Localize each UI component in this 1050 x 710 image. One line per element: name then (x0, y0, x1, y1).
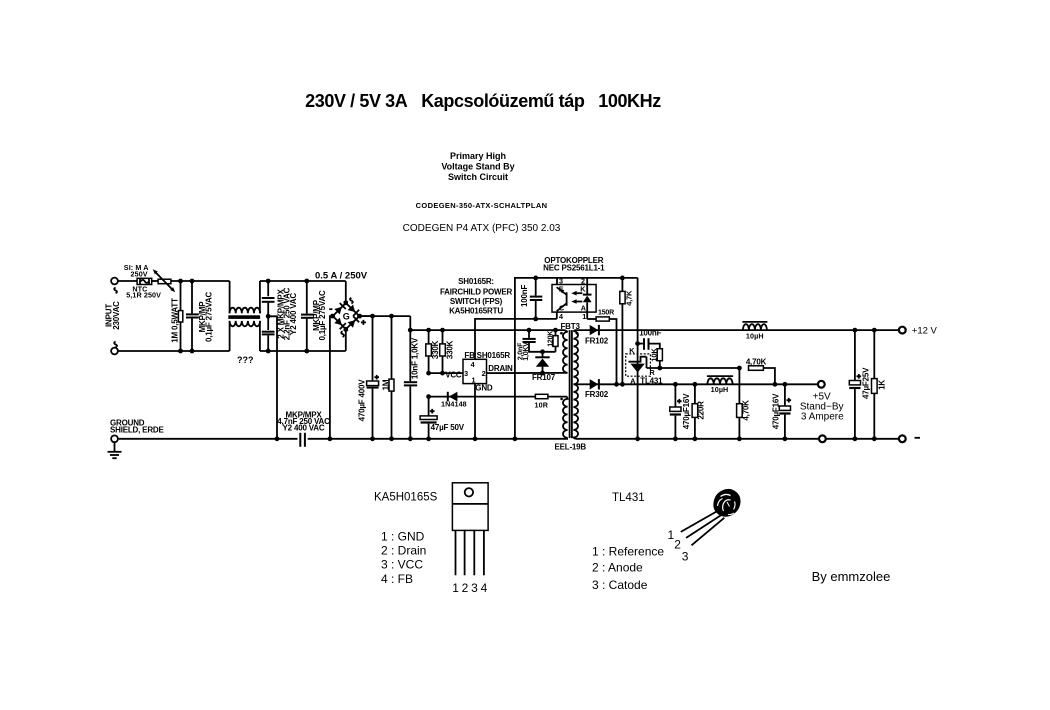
label MKP/MP 0,1uF 275VAC (198, 292, 213, 343)
TO-92 3D drawing (713, 489, 740, 517)
wire opto pin1 to 150R (587, 318, 596, 320)
svg-text:1: 1 (582, 312, 586, 321)
capacitor 470uF 16V #1 (670, 384, 682, 439)
svg-text:1N4148: 1N4148 (441, 399, 467, 408)
junction (178, 279, 183, 284)
junction (178, 349, 183, 354)
svg-text:47µF 50V: 47µF 50V (431, 423, 465, 432)
resistor 4,70K horizontal (749, 366, 775, 385)
svg-text:Y2 400 VAC: Y2 400 VAC (289, 293, 298, 335)
svg-text:A: A (581, 304, 586, 313)
svg-text:A: A (630, 376, 635, 385)
svg-text:100nF: 100nF (639, 328, 661, 337)
wire Y mid to ground drop (268, 316, 277, 439)
svg-text:1: 1 (452, 581, 459, 595)
core (570, 330, 572, 438)
wire bottom AC left (118, 350, 230, 352)
capacitor MKP/MP 0,1uF 275VAC #2 (301, 281, 314, 351)
secondary tap wire (575, 383, 590, 385)
svg-text:1 : GND: 1 : GND (381, 530, 425, 544)
svg-text:VCC: VCC (445, 371, 462, 380)
junction (370, 436, 375, 441)
IC U1 FB SH0165R (463, 359, 487, 383)
TO-220 package (452, 483, 488, 576)
svg-text:KA5H0165S: KA5H0165S (374, 492, 438, 504)
resistor 4,70K vertical (737, 368, 743, 439)
svg-text:100nF: 100nF (520, 285, 529, 307)
label INPUT 230VAC (105, 301, 122, 330)
terminal input N (111, 348, 118, 355)
junction (773, 382, 778, 387)
svg-text:0,1µF 275VAC: 0,1µF 275VAC (318, 290, 327, 341)
junction (737, 366, 742, 371)
svg-text:470µF16V: 470µF16V (771, 393, 780, 429)
svg-text:FR107: FR107 (532, 373, 556, 382)
svg-text:2: 2 (674, 538, 681, 552)
inductor 10uH +5V (707, 376, 733, 384)
resistor 1M bleeder (389, 316, 394, 439)
opto LED (583, 285, 592, 313)
junction (440, 371, 445, 376)
svg-text:10µH: 10µH (746, 332, 764, 341)
capacitor 470uF 400V bulk (367, 316, 379, 439)
resistor 10K (657, 349, 662, 368)
svg-text:DRAIN: DRAIN (488, 364, 513, 373)
svg-text:1M 0,5WATT: 1M 0,5WATT (171, 298, 180, 343)
junction (275, 436, 280, 441)
svg-text:4,70K: 4,70K (746, 357, 767, 366)
wire top AC left (118, 280, 137, 282)
svg-text:Voltage Stand By: Voltage Stand By (441, 162, 514, 172)
AC tilde bottom (114, 342, 117, 348)
optocoupler U2 box (552, 285, 596, 313)
svg-text:10R: 10R (535, 400, 549, 409)
junction (426, 394, 431, 399)
capacitor 47uF 50V (420, 397, 437, 439)
svg-text:By emmzolee: By emmzolee (812, 569, 891, 584)
primary ground bus (308, 438, 568, 440)
wire bottom AC right (260, 350, 346, 352)
svg-text:0,1µF 275VAC: 0,1µF 275VAC (204, 292, 213, 343)
capacitor 100nF opto (530, 278, 543, 319)
svg-text:120K: 120K (547, 331, 554, 347)
svg-text:10nF 1,0KV: 10nF 1,0KV (410, 337, 419, 379)
resistor 330K #1 (426, 330, 432, 373)
label MKP/MPX 4,7nF 250VAC Y2 400VAC (277, 410, 330, 432)
wire GND pin1 down (474, 384, 476, 439)
capacitor MKP/MPX 4,7nF Y2 (in ground line) (300, 433, 305, 447)
label SH0165R: FAIRCHILD POWER SWITCH (FPS) KA5H0165RTU (440, 277, 513, 316)
svg-text:G: G (343, 312, 350, 322)
label minus out (915, 437, 921, 439)
terminal input L (111, 278, 118, 285)
junction (266, 349, 271, 354)
svg-text:1K: 1K (878, 380, 887, 390)
junction (673, 436, 678, 441)
junction (304, 279, 309, 284)
svg-text:3: 3 (464, 369, 468, 378)
svg-text:470µF16V: 470µF16V (682, 393, 691, 429)
junction (540, 349, 545, 354)
svg-text:0.5 A / 250V: 0.5 A / 250V (315, 271, 368, 282)
opto light arrows (571, 291, 582, 304)
resistor 150R (596, 317, 609, 321)
wire R sense (647, 367, 740, 369)
TO-92 leads (681, 511, 725, 546)
opto pin3 stub (556, 278, 558, 285)
svg-text:1M: 1M (382, 379, 391, 390)
pin list TL431 (592, 545, 664, 593)
junction (440, 328, 445, 333)
svg-text:FR302: FR302 (585, 390, 609, 399)
aux winding (563, 397, 568, 439)
svg-text:TL431: TL431 (612, 492, 645, 504)
svg-text:C: C (559, 303, 564, 312)
junction (473, 436, 478, 441)
junction (783, 436, 788, 441)
resistor 1M 0,5WATT (178, 281, 182, 351)
svg-text:4: 4 (481, 581, 488, 595)
svg-text:Y2 400 VAC: Y2 400 VAC (283, 423, 325, 432)
resistor 4,7K (620, 278, 625, 384)
terminal 0V return (819, 435, 826, 442)
svg-text:SWITCH (FPS): SWITCH (FPS) (450, 297, 503, 306)
wire +DC rail upper (359, 315, 410, 317)
earth ground symbol (108, 442, 122, 458)
svg-text:4: 4 (559, 312, 563, 321)
capacitor 2,0nF 1,0KV (523, 330, 556, 352)
label minus (329, 308, 332, 310)
junction (693, 382, 698, 387)
terminal ground (111, 435, 118, 442)
junction (693, 436, 698, 441)
NTC arrow (153, 269, 175, 292)
svg-text:E: E (559, 284, 564, 293)
capacitor 10nF 1,0KV (404, 330, 417, 439)
bridge rectifier G (330, 281, 373, 439)
pin list KA5H0165S (381, 530, 426, 587)
capacitor Y2 2,2nF upper (262, 281, 275, 330)
primary winding (563, 330, 568, 373)
resistor 220R (692, 384, 698, 439)
svg-text:2: 2 (462, 581, 469, 595)
svg-text:GND: GND (475, 383, 493, 392)
wire +5V rectifier line (589, 383, 818, 385)
svg-text:+12 V: +12 V (912, 325, 938, 336)
junction (426, 328, 431, 333)
svg-text:2 : Drain: 2 : Drain (381, 544, 426, 558)
diode LT (334, 307, 342, 315)
resistor 10R (535, 394, 548, 398)
opto pin2 stub (586, 278, 588, 285)
resistor 330K #2 (440, 330, 446, 373)
wire NTC to choke (171, 280, 230, 282)
svg-text:EEL-19B: EEL-19B (555, 442, 587, 451)
diode FR302 (590, 379, 599, 389)
bridge node dots (344, 301, 349, 306)
svg-text:4,7K: 4,7K (624, 290, 633, 306)
svg-text:3 Ampere: 3 Ampere (801, 411, 844, 422)
svg-text:2: 2 (482, 369, 486, 378)
AC tilde top (114, 288, 117, 294)
svg-text:Switch Circuit: Switch Circuit (448, 172, 508, 182)
wire 150R to +5V line (609, 319, 616, 384)
NTC R (158, 279, 171, 284)
svg-text:FR102: FR102 (585, 337, 609, 346)
wire +12V rail (575, 329, 900, 331)
label 2,0nF 1,0KV (517, 342, 529, 361)
diode 1N4148 (429, 392, 567, 402)
svg-text:330K: 330K (431, 340, 440, 359)
secondary polarity dot (576, 332, 579, 335)
junction (533, 317, 538, 322)
svg-text:???: ??? (237, 355, 254, 365)
wire DRAIN pin2 (487, 372, 565, 374)
svg-text:TL431: TL431 (640, 376, 663, 385)
svg-text:SH0165R:: SH0165R: (458, 277, 494, 286)
junction (426, 436, 431, 441)
junction (620, 276, 625, 281)
label ~ bottom (341, 331, 344, 337)
opto pin4 stub (556, 312, 558, 319)
svg-text:3: 3 (471, 581, 478, 595)
resistor 120K (553, 330, 558, 352)
svg-text:1,0KV: 1,0KV (523, 342, 530, 361)
opto phototransistor (557, 287, 567, 311)
wire FB pin4 up (475, 319, 557, 359)
junction (389, 314, 394, 319)
aux polarity dot (560, 398, 563, 401)
svg-text:SHIELD, ERDE: SHIELD, ERDE (110, 426, 164, 435)
junction (737, 436, 742, 441)
label MKP/MP 0,1uF 275VAC #2 (312, 290, 327, 341)
svg-text:3 : Catode: 3 : Catode (592, 578, 648, 592)
terminal +5V (818, 381, 825, 388)
junction (533, 276, 538, 281)
primary polarity dot (560, 332, 563, 335)
terminal +12V (899, 327, 906, 334)
secondary ground bus (576, 438, 900, 440)
label 2 X MKP/MPX 2,2nF 250VAC Y2 400VAC (276, 287, 298, 340)
junction (853, 436, 858, 441)
svg-text:250V: 250V (131, 269, 148, 278)
svg-text:230V / 5V 3A Kapcsolóüzemű t: 230V / 5V 3A Kapcsolóüzemű táp 100KHz (305, 91, 661, 111)
svg-text:470µF 400V: 470µF 400V (357, 379, 366, 422)
junction (408, 328, 413, 333)
fuse SI (137, 278, 152, 284)
TL431 U3 symbol (629, 357, 647, 373)
wire rail lower (410, 329, 564, 331)
junction (513, 436, 518, 441)
wire top AC right (260, 280, 346, 282)
label plus (361, 320, 366, 325)
secondary winding (573, 330, 578, 439)
junction bridge minus to bus (328, 436, 333, 441)
junction (426, 371, 431, 376)
capacitor 100nF comp (638, 338, 660, 350)
junction (872, 436, 877, 441)
diode FR102 (590, 325, 599, 335)
terminal minus (899, 435, 906, 442)
svg-text:CODEGEN-350-ATX-SCHALTPLAN: CODEGEN-350-ATX-SCHALTPLAN (416, 201, 548, 210)
junction K node (635, 341, 640, 346)
junction (370, 314, 375, 319)
wire fuse to NTC (152, 280, 158, 282)
svg-text:2 : Anode: 2 : Anode (592, 561, 643, 575)
junction (614, 382, 619, 387)
svg-text:FB SH0165R: FB SH0165R (464, 351, 510, 360)
junction anode to bus (635, 436, 640, 441)
svg-text:NEC PS2561L1-1: NEC PS2561L1-1 (543, 264, 605, 273)
label ~ top (350, 298, 353, 304)
diode TR (348, 305, 356, 313)
junction (620, 382, 625, 387)
wire ground to Y2 cap (118, 438, 298, 440)
opto pin1 stub (586, 312, 588, 319)
svg-text:Primary High: Primary High (450, 151, 506, 161)
svg-text:220R: 220R (696, 401, 705, 420)
svg-text:47µF25V: 47µF25V (861, 367, 870, 399)
svg-text:K: K (580, 284, 586, 293)
junction Y mid (266, 314, 271, 319)
bridge edges (331, 301, 348, 318)
svg-text:CODEGEN P4 ATX (PFC) 350 2.03: CODEGEN P4 ATX (PFC) 350 2.03 (403, 223, 561, 234)
junction (657, 366, 662, 371)
svg-text:4,70K: 4,70K (741, 400, 750, 421)
capacitor MKP/MP 0,1uF 275VAC #1 (186, 281, 199, 351)
junction (389, 436, 394, 441)
wire opto top rail (515, 278, 638, 439)
diode FR107 (535, 352, 549, 373)
junction (190, 279, 195, 284)
svg-text:5,1R 250V: 5,1R 250V (126, 290, 161, 299)
svg-text:4 : FB: 4 : FB (381, 572, 413, 586)
svg-text:230VAC: 230VAC (112, 301, 121, 330)
junction (190, 349, 195, 354)
junction (304, 349, 309, 354)
svg-text:330K: 330K (446, 340, 455, 359)
junction (408, 436, 413, 441)
diode LB (334, 318, 342, 326)
TL431 dotted box (626, 354, 651, 376)
svg-text:FAIRCHILD POWER: FAIRCHILD POWER (440, 288, 513, 297)
svg-text:150R: 150R (598, 309, 614, 316)
svg-text:10µH: 10µH (711, 385, 729, 394)
junction (673, 382, 678, 387)
junction (266, 279, 271, 284)
svg-text:KA5H0165RTU: KA5H0165RTU (449, 307, 503, 316)
junction (853, 328, 858, 333)
svg-text:3: 3 (682, 550, 689, 564)
wire opto-K down to TL431 (637, 278, 639, 439)
diode BR (348, 320, 356, 328)
common mode choke L1 (228, 281, 260, 351)
junction (553, 328, 558, 333)
resistor 1K (872, 330, 878, 439)
junction (540, 371, 545, 376)
svg-text:4: 4 (471, 360, 475, 369)
svg-text:1 : Reference: 1 : Reference (592, 545, 664, 559)
wire VCC (429, 372, 463, 374)
capacitor Y2 2,2nF lower (262, 332, 275, 351)
svg-text:3 : VCC: 3 : VCC (381, 558, 423, 572)
capacitor 470uF 16V #2 (779, 384, 791, 439)
junction (783, 382, 788, 387)
wire rail step down (409, 316, 411, 330)
inductor 10uH +12V (742, 322, 767, 330)
capacitor 47uF 25V (849, 330, 861, 439)
junction (527, 328, 532, 333)
junction (872, 328, 877, 333)
